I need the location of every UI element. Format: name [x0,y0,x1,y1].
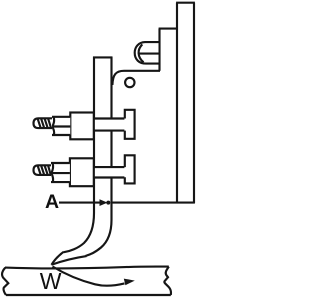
holder bottom edge [112,202,195,204]
pointer line A [59,202,102,204]
cap nut on bar [135,42,159,64]
lower clamp block [70,158,94,186]
feed arrowhead [124,279,135,286]
lower T-bolt stem [94,167,126,178]
svg-text:A: A [45,191,59,213]
blade strip right edge [86,57,112,256]
blade strip left edge [64,57,94,253]
vertical plate right edge [193,3,195,203]
upper clamp block [70,113,94,140]
upper T-head [124,109,135,139]
feed arrow curve [53,267,125,286]
svg-text:W: W [40,268,62,294]
workpiece top edge [5,267,169,269]
upper bolt thread [34,118,53,128]
workpiece left break [2,268,8,295]
lower bolt hex [51,163,70,182]
lower bolt thread [34,165,52,175]
blade bevel to tip [52,252,64,265]
vertical plate left edge [176,3,178,203]
bar top edge [159,28,177,30]
shaving line [52,256,87,265]
lower T-head [124,155,135,184]
workpiece right break [164,267,171,295]
pointer tip dot [106,201,110,205]
pointer arrowhead [100,199,108,206]
bar left edge [158,29,160,71]
cap nut mid line [139,53,158,55]
blade strip top edge [93,56,112,58]
workpiece bottom edge [6,294,171,296]
upper T-bolt stem [94,119,126,131]
vertical plate top edge [176,2,195,4]
upper bolt hex [52,117,71,135]
hole in bracket [125,78,134,87]
cap nut chamfer crescent [139,44,144,62]
holder top arm with fillet [112,71,160,85]
